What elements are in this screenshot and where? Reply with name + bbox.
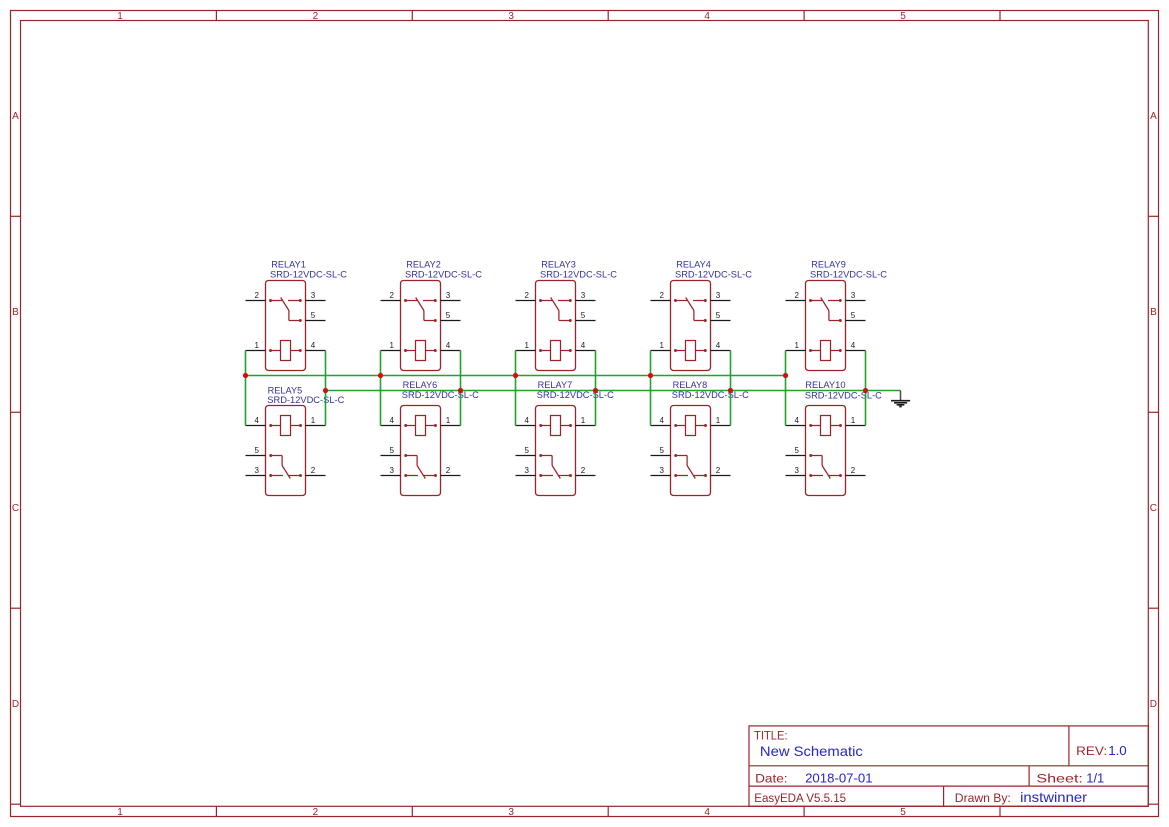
svg-text:3: 3 bbox=[716, 291, 721, 300]
svg-text:2: 2 bbox=[311, 466, 316, 475]
svg-text:SRD-12VDC-SL-C: SRD-12VDC-SL-C bbox=[540, 269, 618, 279]
frame column ticks (top margin) bbox=[216, 11, 1000, 21]
svg-text:C: C bbox=[1150, 503, 1157, 514]
RELAY1 pin 2 bbox=[246, 300, 266, 302]
RELAY7 pin 2 bbox=[576, 475, 596, 477]
svg-text:4: 4 bbox=[716, 341, 721, 350]
junction on bus 2 column 1 bbox=[323, 388, 328, 393]
svg-text:RELAY7: RELAY7 bbox=[538, 380, 573, 390]
RELAY2 pin 2 bbox=[381, 300, 401, 302]
svg-text:4: 4 bbox=[795, 416, 800, 425]
RELAY4 coil bbox=[674, 341, 707, 361]
RELAY3 pin 5 bbox=[576, 320, 596, 322]
svg-text:3: 3 bbox=[311, 291, 316, 300]
svg-text:RELAY9: RELAY9 bbox=[811, 260, 846, 270]
junction on bus 1 column 5 bbox=[783, 373, 788, 378]
frame row letters right bbox=[1150, 111, 1157, 710]
svg-text:New Schematic: New Schematic bbox=[760, 744, 863, 759]
relay RELAY6 (SRD-12VDC-SL-C) bbox=[381, 380, 480, 496]
relay RELAY5 (SRD-12VDC-SL-C) bbox=[246, 385, 345, 495]
RELAY10 pin 1 bbox=[846, 425, 866, 427]
svg-text:1: 1 bbox=[117, 807, 123, 818]
RELAY6 pin 3 bbox=[381, 475, 401, 477]
svg-text:RELAY6: RELAY6 bbox=[403, 380, 438, 390]
wire: coil right vertical column 2 bbox=[460, 351, 462, 426]
svg-text:3: 3 bbox=[255, 466, 260, 475]
svg-text:SRD-12VDC-SL-C: SRD-12VDC-SL-C bbox=[405, 269, 483, 279]
svg-text:4: 4 bbox=[851, 341, 856, 350]
RELAY10 pin 2 bbox=[846, 475, 866, 477]
svg-text:RELAY5: RELAY5 bbox=[268, 385, 303, 395]
svg-text:2: 2 bbox=[313, 11, 319, 22]
svg-text:instwinner: instwinner bbox=[1020, 790, 1088, 805]
svg-text:1: 1 bbox=[660, 341, 665, 350]
wire: coil left vertical column 2 bbox=[380, 351, 382, 426]
RELAY7 switch contacts bbox=[539, 454, 572, 478]
RELAY5 pin 2 bbox=[306, 475, 326, 477]
RELAY8 pin 4 bbox=[651, 425, 671, 427]
RELAY5 pin 3 bbox=[246, 475, 266, 477]
svg-text:B: B bbox=[12, 307, 19, 318]
junction on bus 1 column 1 bbox=[243, 373, 248, 378]
svg-text:RELAY3: RELAY3 bbox=[541, 260, 576, 270]
junction on bus 1 column 4 bbox=[648, 373, 653, 378]
frame row ticks (right margin) bbox=[1148, 216, 1158, 804]
RELAY4 body outline bbox=[671, 281, 711, 371]
svg-text:RELAY10: RELAY10 bbox=[805, 380, 845, 390]
svg-text:3: 3 bbox=[660, 466, 665, 475]
svg-text:SRD-12VDC-SL-C: SRD-12VDC-SL-C bbox=[267, 395, 345, 405]
svg-text:REV:: REV: bbox=[1076, 744, 1107, 758]
svg-text:2: 2 bbox=[795, 291, 800, 300]
RELAY9 body outline bbox=[806, 281, 846, 371]
RELAY1 pin 1 bbox=[246, 350, 266, 352]
RELAY9 pin 5 bbox=[846, 320, 866, 322]
relay RELAY4 (SRD-12VDC-SL-C) bbox=[651, 260, 753, 371]
svg-text:SRD-12VDC-SL-C: SRD-12VDC-SL-C bbox=[810, 269, 888, 279]
frame column ticks (bottom margin) bbox=[216, 806, 1000, 816]
svg-text:SRD-12VDC-SL-C: SRD-12VDC-SL-C bbox=[270, 269, 348, 279]
RELAY1 switch contacts bbox=[269, 298, 302, 322]
RELAY1 pin 4 bbox=[306, 350, 326, 352]
svg-text:RELAY4: RELAY4 bbox=[676, 260, 711, 270]
RELAY10 pin 4 bbox=[786, 425, 806, 427]
svg-text:A: A bbox=[1150, 111, 1157, 122]
RELAY9 pin 1 bbox=[786, 350, 806, 352]
wire: coil left vertical column 3 bbox=[515, 351, 517, 426]
relay RELAY1 (SRD-12VDC-SL-C) bbox=[246, 260, 348, 371]
svg-text:D: D bbox=[12, 699, 19, 710]
svg-text:1.0: 1.0 bbox=[1108, 743, 1127, 758]
ground symbol bbox=[891, 391, 910, 407]
RELAY6 pin 5 bbox=[381, 455, 401, 457]
RELAY5 pin 4 bbox=[246, 425, 266, 427]
junction on bus 2 column 2 bbox=[458, 388, 463, 393]
svg-text:B: B bbox=[1150, 307, 1157, 318]
RELAY3 coil bbox=[539, 341, 572, 361]
svg-text:4: 4 bbox=[255, 416, 260, 425]
svg-text:1: 1 bbox=[795, 341, 800, 350]
RELAY1 coil bbox=[269, 341, 302, 361]
svg-text:RELAY1: RELAY1 bbox=[271, 260, 306, 270]
svg-text:5: 5 bbox=[581, 311, 586, 320]
RELAY1 body outline bbox=[266, 281, 306, 371]
RELAY3 pin 1 bbox=[516, 350, 536, 352]
svg-text:4: 4 bbox=[446, 341, 451, 350]
RELAY7 pin 1 bbox=[576, 425, 596, 427]
RELAY6 body outline bbox=[401, 406, 441, 496]
svg-text:3: 3 bbox=[525, 466, 530, 475]
wire: coil right vertical column 3 bbox=[595, 351, 597, 426]
svg-text:4: 4 bbox=[581, 341, 586, 350]
relay RELAY8 (SRD-12VDC-SL-C) bbox=[651, 380, 750, 496]
RELAY7 coil bbox=[539, 416, 572, 436]
RELAY8 switch contacts bbox=[674, 454, 707, 478]
svg-text:1: 1 bbox=[311, 416, 316, 425]
svg-text:3: 3 bbox=[851, 291, 856, 300]
svg-text:5: 5 bbox=[851, 311, 856, 320]
svg-text:2018-07-01: 2018-07-01 bbox=[805, 770, 873, 785]
svg-text:4: 4 bbox=[525, 416, 530, 425]
svg-text:RELAY8: RELAY8 bbox=[673, 380, 708, 390]
junction on bus 2 column 4 bbox=[728, 388, 733, 393]
frame row ticks (left margin) bbox=[11, 216, 21, 804]
svg-text:5: 5 bbox=[311, 311, 316, 320]
RELAY10 body outline bbox=[806, 406, 846, 496]
svg-text:2: 2 bbox=[313, 807, 319, 818]
wire: coil left vertical column 5 bbox=[785, 351, 787, 426]
svg-text:TITLE:: TITLE: bbox=[754, 730, 788, 743]
RELAY2 pin 5 bbox=[441, 320, 461, 322]
RELAY8 body outline bbox=[671, 406, 711, 496]
relay RELAY2 (SRD-12VDC-SL-C) bbox=[381, 260, 483, 371]
RELAY9 pin 3 bbox=[846, 300, 866, 302]
RELAY4 pin 5 bbox=[711, 320, 731, 322]
svg-text:1: 1 bbox=[716, 416, 721, 425]
RELAY8 pin 1 bbox=[711, 425, 731, 427]
RELAY4 pin 1 bbox=[651, 350, 671, 352]
svg-text:5: 5 bbox=[716, 311, 721, 320]
RELAY3 pin 2 bbox=[516, 300, 536, 302]
RELAY4 pin 2 bbox=[651, 300, 671, 302]
svg-text:2: 2 bbox=[660, 291, 665, 300]
frame row letters left bbox=[12, 111, 19, 710]
svg-text:4: 4 bbox=[704, 11, 710, 22]
title block outline bbox=[749, 726, 1148, 806]
svg-text:3: 3 bbox=[390, 466, 395, 475]
RELAY8 pin 5 bbox=[651, 455, 671, 457]
RELAY4 switch contacts bbox=[674, 298, 707, 322]
RELAY10 pin 3 bbox=[786, 475, 806, 477]
svg-text:3: 3 bbox=[508, 11, 514, 22]
svg-text:4: 4 bbox=[390, 416, 395, 425]
svg-text:2: 2 bbox=[525, 291, 530, 300]
RELAY2 coil bbox=[404, 341, 437, 361]
RELAY5 coil bbox=[269, 416, 302, 436]
frame column numbers top bbox=[117, 11, 906, 22]
svg-text:1/1: 1/1 bbox=[1086, 771, 1104, 786]
RELAY3 switch contacts bbox=[539, 298, 572, 322]
RELAY2 pin 4 bbox=[441, 350, 461, 352]
svg-text:3: 3 bbox=[795, 466, 800, 475]
junction on bus 1 column 2 bbox=[378, 373, 383, 378]
RELAY10 pin 5 bbox=[786, 455, 806, 457]
wire: coil left vertical column 1 bbox=[245, 351, 247, 426]
RELAY9 pin 4 bbox=[846, 350, 866, 352]
RELAY8 pin 3 bbox=[651, 475, 671, 477]
svg-text:Drawn By:: Drawn By: bbox=[955, 791, 1011, 805]
svg-text:5: 5 bbox=[795, 446, 800, 455]
svg-text:5: 5 bbox=[255, 446, 260, 455]
RELAY6 pin 2 bbox=[441, 475, 461, 477]
relay RELAY10 (SRD-12VDC-SL-C) bbox=[786, 380, 883, 496]
svg-text:5: 5 bbox=[660, 446, 665, 455]
svg-text:Date:: Date: bbox=[755, 771, 788, 785]
RELAY5 switch contacts bbox=[269, 454, 302, 478]
svg-text:2: 2 bbox=[390, 291, 395, 300]
RELAY10 coil bbox=[809, 416, 842, 436]
svg-text:3: 3 bbox=[581, 291, 586, 300]
svg-text:5: 5 bbox=[446, 311, 451, 320]
svg-text:1: 1 bbox=[446, 416, 451, 425]
RELAY6 switch contacts bbox=[404, 454, 437, 478]
RELAY3 body outline bbox=[536, 281, 576, 371]
RELAY7 pin 3 bbox=[516, 475, 536, 477]
svg-text:D: D bbox=[1150, 699, 1157, 710]
wire: coil right vertical column 1 bbox=[325, 351, 327, 426]
RELAY3 pin 4 bbox=[576, 350, 596, 352]
svg-text:5: 5 bbox=[900, 11, 906, 22]
RELAY1 pin 5 bbox=[306, 320, 326, 322]
svg-text:2: 2 bbox=[851, 466, 856, 475]
svg-text:RELAY2: RELAY2 bbox=[406, 260, 441, 270]
svg-text:4: 4 bbox=[311, 341, 316, 350]
RELAY2 body outline bbox=[401, 281, 441, 371]
RELAY9 coil bbox=[809, 341, 842, 361]
svg-text:3: 3 bbox=[508, 807, 514, 818]
svg-text:1: 1 bbox=[581, 416, 586, 425]
svg-text:SRD-12VDC-SL-C: SRD-12VDC-SL-C bbox=[675, 269, 753, 279]
RELAY2 pin 1 bbox=[381, 350, 401, 352]
RELAY10 switch contacts bbox=[809, 454, 842, 478]
RELAY3 pin 3 bbox=[576, 300, 596, 302]
svg-text:2: 2 bbox=[255, 291, 260, 300]
RELAY5 body outline bbox=[266, 406, 306, 496]
wire: net bus 2 (coil right rail to ground) bbox=[326, 390, 901, 392]
svg-text:1: 1 bbox=[255, 341, 260, 350]
RELAY8 coil bbox=[674, 416, 707, 436]
RELAY4 pin 4 bbox=[711, 350, 731, 352]
RELAY4 pin 3 bbox=[711, 300, 731, 302]
relay RELAY3 (SRD-12VDC-SL-C) bbox=[516, 260, 618, 371]
RELAY8 pin 2 bbox=[711, 475, 731, 477]
junction on bus 2 column 5 bbox=[863, 388, 868, 393]
RELAY2 pin 3 bbox=[441, 300, 461, 302]
svg-text:2: 2 bbox=[581, 466, 586, 475]
svg-text:5: 5 bbox=[900, 807, 906, 818]
svg-text:2: 2 bbox=[716, 466, 721, 475]
svg-text:2: 2 bbox=[446, 466, 451, 475]
svg-text:C: C bbox=[12, 503, 19, 514]
wire: net bus 1 (coil left rail) bbox=[246, 375, 786, 377]
svg-text:Sheet:: Sheet: bbox=[1036, 772, 1083, 786]
wire: coil left vertical column 4 bbox=[650, 351, 652, 426]
RELAY6 pin 1 bbox=[441, 425, 461, 427]
junction on bus 2 column 3 bbox=[593, 388, 598, 393]
svg-text:A: A bbox=[12, 111, 19, 122]
frame column numbers bottom bbox=[117, 807, 906, 818]
svg-text:1: 1 bbox=[851, 416, 856, 425]
svg-text:1: 1 bbox=[525, 341, 530, 350]
relay RELAY9 (SRD-12VDC-SL-C) bbox=[786, 260, 888, 371]
svg-text:SRD-12VDC-SL-C: SRD-12VDC-SL-C bbox=[805, 390, 883, 400]
svg-text:5: 5 bbox=[525, 446, 530, 455]
RELAY6 coil bbox=[404, 416, 437, 436]
RELAY2 switch contacts bbox=[404, 298, 437, 322]
RELAY5 pin 1 bbox=[306, 425, 326, 427]
svg-text:EasyEDA V5.5.15: EasyEDA V5.5.15 bbox=[754, 791, 846, 805]
RELAY6 pin 4 bbox=[381, 425, 401, 427]
RELAY9 switch contacts bbox=[809, 298, 842, 322]
RELAY7 pin 5 bbox=[516, 455, 536, 457]
RELAY9 pin 2 bbox=[786, 300, 806, 302]
RELAY1 pin 3 bbox=[306, 300, 326, 302]
RELAY7 pin 4 bbox=[516, 425, 536, 427]
junction on bus 1 column 3 bbox=[513, 373, 518, 378]
svg-text:4: 4 bbox=[660, 416, 665, 425]
svg-text:1: 1 bbox=[117, 11, 123, 22]
svg-text:3: 3 bbox=[446, 291, 451, 300]
wire: coil right vertical column 5 bbox=[865, 351, 867, 426]
svg-text:1: 1 bbox=[390, 341, 395, 350]
RELAY5 pin 5 bbox=[246, 455, 266, 457]
RELAY7 body outline bbox=[536, 406, 576, 496]
wire: coil right vertical column 4 bbox=[730, 351, 732, 426]
relay RELAY7 (SRD-12VDC-SL-C) bbox=[516, 380, 615, 496]
svg-text:5: 5 bbox=[390, 446, 395, 455]
svg-text:4: 4 bbox=[704, 807, 710, 818]
